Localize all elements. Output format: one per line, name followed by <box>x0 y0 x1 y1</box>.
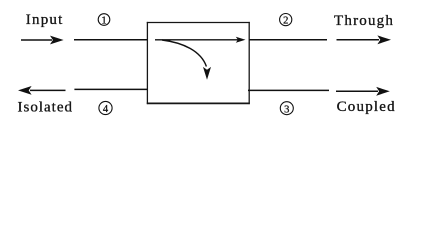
svg-text:Coupled: Coupled <box>337 99 396 115</box>
wire input to box <box>74 39 147 41</box>
node 2 circled <box>280 14 292 27</box>
svg-text:3: 3 <box>284 104 289 115</box>
svg-text:Isolated: Isolated <box>18 99 73 115</box>
svg-text:4: 4 <box>103 104 109 115</box>
svg-text:2: 2 <box>283 16 288 27</box>
input arrow port 1 <box>21 36 64 45</box>
through arrow port 2 <box>337 35 392 44</box>
node 1 circled <box>98 14 110 27</box>
coupled arrow port 3 <box>336 87 390 96</box>
isolated arrow port 4 <box>18 86 66 95</box>
svg-text:Through: Through <box>334 13 394 29</box>
svg-text:Input: Input <box>26 12 64 28</box>
inner through arrow <box>155 37 246 43</box>
coupler box <box>147 22 250 104</box>
svg-text:1: 1 <box>101 15 106 26</box>
wire box to coupled <box>248 89 329 91</box>
wire box to through <box>249 39 327 41</box>
wire isolated to box <box>74 88 147 90</box>
node 3 circled <box>280 102 293 116</box>
inner coupled curved arrow <box>162 40 211 80</box>
node 4 circled <box>99 101 112 115</box>
